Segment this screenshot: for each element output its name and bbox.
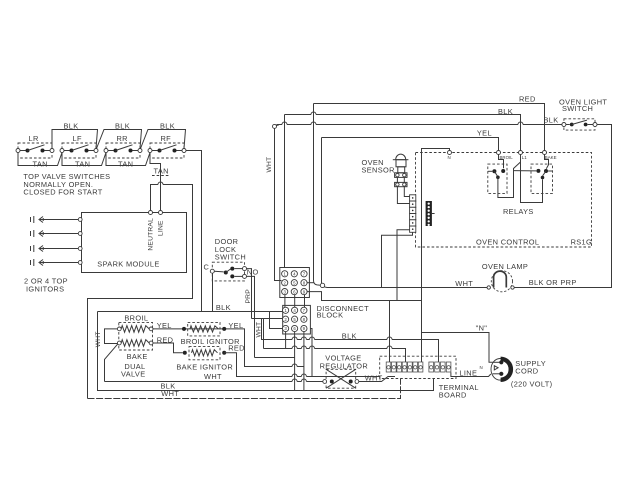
wire YEL vertical to inline connector [320,138,324,288]
svg-text:WHT: WHT [95,331,102,347]
terminal L1 of oven control [519,151,528,161]
wire RED drop to terminal board [224,344,380,377]
label disconnect block [317,304,369,320]
svg-text:BROIL: BROIL [124,313,148,322]
ignitor 1 (top burner) [31,216,83,223]
connector strip (sensor harness) [410,195,416,233]
svg-text:TAN: TAN [33,160,48,169]
svg-text:BOARD: BOARD [439,391,467,400]
wire pins upper block to lower block [285,295,305,308]
wire YEL drop to pin 9 loop [228,321,304,367]
svg-text:WHT: WHT [455,279,473,288]
svg-text:OVEN LAMP: OVEN LAMP [482,262,528,271]
svg-text:C: C [204,262,210,271]
svg-text:IGNITORS: IGNITORS [26,284,64,293]
connector block upper (oven control plug) [280,268,310,298]
svg-text:BAKE: BAKE [127,352,148,361]
wire connector block pin 8 stub [307,282,313,284]
svg-text:PRP: PRP [245,289,252,304]
wire WHT bracket joining valve coils [95,329,117,347]
broil ignitor [181,322,240,346]
wire from door lock C terminal to BLK line [212,273,214,311]
svg-text:RR: RR [117,134,128,143]
svg-text:YEL: YEL [228,321,243,330]
wire pin 9 right loop down [310,329,312,377]
svg-text:TAN: TAN [154,167,169,176]
svg-text:BLK: BLK [498,107,513,116]
switch RF (top valve switch) [148,134,186,158]
wire RED vertical hook to inline connector [314,104,321,286]
wire YEL broil valve to broil ignitor [153,321,242,331]
svg-text:CLOSED FOR START: CLOSED FOR START [23,187,102,196]
svg-text:RF: RF [161,134,172,143]
relay broil [488,155,507,194]
svg-text:TAN: TAN [75,160,90,169]
switch LF (top valve switch) [60,134,98,158]
svg-text:LINE: LINE [157,220,164,236]
svg-text:BLK: BLK [342,332,357,341]
svg-text:SPARK MODULE: SPARK MODULE [97,260,159,269]
svg-text:WHT: WHT [204,372,222,381]
supply cord (220 volt) [491,359,552,389]
svg-text:OVEN CONTROL: OVEN CONTROL [476,238,539,247]
wire pin 6 drop to BLK bus [294,332,296,391]
wire WHT from bake coil to bus A [105,344,118,382]
note text: top valve switches [23,172,110,196]
svg-text:SENSOR: SENSOR [362,166,395,175]
switch RR (top valve switch) [104,134,142,158]
svg-text:N: N [448,155,451,160]
svg-text:"N": "N" [476,324,488,333]
svg-text:WHT: WHT [266,157,273,173]
svg-text:BLK: BLK [160,122,175,131]
wire spark module NEUTRAL to outer WHT loop [88,182,193,399]
wire WHT vertical to connector block pin 2 [266,128,282,280]
terminal BROIL of oven control [497,151,514,161]
svg-text:LR: LR [29,134,39,143]
wire connector strip to pin 9 route [397,230,410,301]
wire BLK jumper LF-RR [97,122,142,149]
svg-text:SWITCH: SWITCH [562,104,593,113]
wire WHT bus (outer loop) [88,379,401,399]
wire disconnect pin 2 line to terminal board [264,349,406,363]
ignitor 2 (top burner) [31,230,83,237]
connector (black header) [426,201,435,226]
oven sensor [362,154,409,187]
oven light switch [559,97,607,130]
relay bake [514,155,553,194]
wire broil relay output to L1 join [498,162,521,198]
wire pin 9 route to neutral junction [307,292,421,301]
svg-text:BLK: BLK [115,122,130,131]
wire TAN jumper RR-RF [106,153,150,169]
terminal BAKE of oven control [543,151,557,161]
wire door net to pin 6 loop [255,357,295,359]
wire L1 to bake relay output [521,155,543,203]
wire pin 9 drop to BLK bus [303,332,305,391]
svg-text:TAN: TAN [118,160,133,169]
wire BLK OR PRP from light switch to oven lamp [514,125,611,288]
svg-text:NEUTRAL: NEUTRAL [147,218,154,251]
bake ignitor [176,347,233,372]
wire TAN drop from RF to spark module LINE [150,153,170,212]
wire RED bake valve to bake ignitor [153,336,226,355]
dual valve (broil and bake coils) [117,313,153,378]
note text: 2 or 4 top ignitors [24,277,68,294]
connector block lower (disconnect block) [283,305,311,334]
terminal board [380,356,479,400]
wire RED line to BAKE relay terminal [314,94,545,150]
wire BLK jumper LR-LF [52,122,98,149]
svg-text:BLOCK: BLOCK [317,311,344,320]
svg-text:SWITCH: SWITCH [215,252,246,261]
ignitor 4 (top burner) [31,259,83,266]
wire BLK line to disconnect pin 1 [98,303,283,312]
wire WHT bus A through voltage regulator [105,372,323,381]
wire from door lock lower terminal to pin 6 loop [247,276,263,357]
wire pin 3 drop [285,332,287,349]
wire TAN jumper LF-RR [62,153,106,169]
wire LINE from terminal board to supply cord [451,365,491,377]
door lock switch [204,237,259,281]
svg-text:LF: LF [73,134,82,143]
svg-text:BAKE IGNITOR: BAKE IGNITOR [176,362,233,371]
svg-text:BLK: BLK [216,303,231,312]
svg-text:WHT: WHT [161,389,179,398]
ignitor 3 (top burner) [31,245,83,252]
wire oven sensor to connector strip [397,187,409,204]
wire BLK jumper RR-RF [141,122,186,149]
svg-text:CORD: CORD [515,366,538,375]
wire BLK bus (inner loop) [98,312,434,391]
wire YEL line to BROIL relay terminal [322,128,499,150]
wire BLK from door net to terminal board [262,319,439,363]
wire N terminal to neutral junction [422,149,450,333]
oven control module RS1G [416,153,593,248]
oven lamp [482,262,528,292]
wire TAN jumper LR-LF [18,153,62,169]
svg-text:(220 VOLT): (220 VOLT) [511,380,553,389]
svg-text:RED: RED [228,344,245,353]
wire pin 2 net loop [252,319,283,349]
svg-text:BLK: BLK [544,115,559,124]
switch LR (top valve switch) [16,134,54,158]
svg-text:LINE: LINE [459,368,477,377]
svg-text:L1: L1 [522,155,527,160]
svg-text:BLK: BLK [64,122,79,131]
svg-text:N: N [480,365,483,370]
svg-text:RED: RED [519,94,536,103]
voltage regulator [320,353,368,388]
svg-text:VALVE: VALVE [121,370,145,379]
wire neutral jog to terminal board [389,301,391,363]
spark module [82,211,187,273]
terminal N of oven control [448,151,452,161]
svg-text:BLK OR PRP: BLK OR PRP [529,278,577,287]
svg-text:YEL: YEL [477,128,492,137]
wire connector strip to lamp WHT line [382,232,413,287]
svg-text:RS1G: RS1G [571,238,593,247]
wire BLK line to oven light switch [273,115,562,128]
wire neutral N line to supply cord [422,324,493,363]
wire pin8 inline connector to oven lamp WHT [324,279,487,288]
wire pin3 to pin1 left bridge [270,312,283,329]
wire RF right BLK drop [186,151,202,312]
wire BLK vertical to connector block pin 1 [284,115,286,268]
wire PRP from door lock NO terminal [245,269,252,319]
wire WHT regulator output to terminal board [359,373,395,382]
wire BLK line to L1 terminal [285,107,521,151]
svg-text:RELAYS: RELAYS [503,207,534,216]
